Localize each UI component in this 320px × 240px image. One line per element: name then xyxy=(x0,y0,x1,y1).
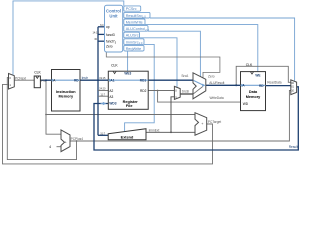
wire Zero: ALU to control unit xyxy=(106,52,220,78)
svg-text:Zero: Zero xyxy=(208,74,215,78)
label box RegWrite xyxy=(124,45,144,51)
flow arrowhead at register file A1 xyxy=(109,79,112,82)
svg-text:Memory: Memory xyxy=(246,95,261,99)
wire Instr vertical branch xyxy=(97,80,100,135)
svg-text:RegWrite: RegWrite xyxy=(126,47,142,51)
svg-text:ReadData: ReadData xyxy=(267,81,282,85)
junction PC to PCTarget xyxy=(45,114,47,116)
data memory box xyxy=(241,72,266,111)
svg-text:19:15: 19:15 xyxy=(99,77,106,80)
svg-text:24:20: 24:20 xyxy=(99,88,106,91)
wire WriteData: RD2 to data memory WD xyxy=(158,91,241,103)
svg-text:Instruction: Instruction xyxy=(56,90,76,94)
wire instr to A2 xyxy=(98,90,108,92)
svg-text:A3: A3 xyxy=(109,95,113,99)
wire Instr: instruction memory RD to register file A1 xyxy=(80,79,108,82)
svg-text:CLK: CLK xyxy=(34,71,41,75)
svg-text:File: File xyxy=(126,104,133,108)
svg-text:4: 4 xyxy=(49,145,51,149)
flow arrowhead at data memory A xyxy=(241,84,244,87)
svg-text:Extend: Extend xyxy=(121,136,134,140)
svg-text:op: op xyxy=(106,25,110,29)
svg-text:PCNext: PCNext xyxy=(15,76,26,80)
wire Result: result mux to register file WD3 xyxy=(94,87,298,150)
svg-text:6:0: 6:0 xyxy=(100,24,104,27)
svg-text:A1: A1 xyxy=(110,78,114,82)
wire op stub xyxy=(98,25,105,28)
svg-text:MemWrite: MemWrite xyxy=(126,21,143,25)
svg-text:31:7: 31:7 xyxy=(100,132,105,135)
wire ALUControl: label box to ALU xyxy=(148,31,200,77)
svg-text:ALUSrc: ALUSrc xyxy=(126,34,139,38)
wire ALUResult to result mux input 00 xyxy=(236,66,291,85)
clock wedge PC xyxy=(36,76,39,78)
svg-text:WD: WD xyxy=(243,102,249,106)
svg-text:Data: Data xyxy=(249,90,258,94)
svg-text:RD: RD xyxy=(74,78,79,82)
wire PCSrc control: label box to PCNext mux select xyxy=(13,1,124,75)
wire PC: PC register to instruction memory xyxy=(40,79,51,82)
flow arrow tail at WD3 xyxy=(101,102,104,104)
instruction memory box xyxy=(52,70,81,112)
svg-text:ImmExt: ImmExt xyxy=(149,128,160,132)
flow line through data memory xyxy=(241,84,266,86)
svg-text:Instr: Instr xyxy=(82,76,89,80)
wire RD2 to SrcB mux input 0 xyxy=(148,90,174,92)
svg-text:RD1: RD1 xyxy=(140,78,147,82)
svg-text:Register: Register xyxy=(123,100,139,104)
wire PCTarget to PCNext mux input 1 xyxy=(3,84,213,163)
junction instr A1 xyxy=(97,79,99,81)
junction PCPlus4 branch xyxy=(76,140,78,142)
wire SrcB: mux to ALU xyxy=(180,93,193,95)
label box PCSrc xyxy=(124,6,141,11)
wire PCNext: mux to PC register xyxy=(14,79,34,81)
wire ImmExt: Extend to PCTarget adder xyxy=(146,131,195,133)
svg-text:WE3: WE3 xyxy=(124,72,131,76)
ALU xyxy=(193,73,206,99)
mux PCNext (PCSrc) xyxy=(9,74,15,90)
svg-text:PC: PC xyxy=(41,79,46,83)
wire ReadData: data memory RD to result mux input 01 xyxy=(266,84,291,87)
svg-text:WD3: WD3 xyxy=(109,102,116,106)
ALU output flow arrowhead xyxy=(202,84,205,87)
svg-text:Memory: Memory xyxy=(59,95,74,99)
svg-text:A2: A2 xyxy=(109,89,113,93)
svg-text:Zero: Zero xyxy=(106,45,113,49)
svg-text:PCSrc: PCSrc xyxy=(126,7,137,11)
wire funct7 stub xyxy=(98,40,105,43)
svg-text:Unit: Unit xyxy=(109,13,118,18)
svg-text:14:12: 14:12 xyxy=(93,31,100,34)
ALU internal highlight arrow xyxy=(193,80,203,85)
wire RegWrite: label box to register file WE3 xyxy=(127,51,129,71)
junction PC tap xyxy=(45,79,47,81)
wire MemWrite control: label box to data memory WE xyxy=(145,25,258,72)
flow line through instruction memory xyxy=(52,79,81,81)
junction ImmExt xyxy=(170,131,172,133)
svg-text:PCTarget: PCTarget xyxy=(208,120,221,124)
junction ALUResult xyxy=(235,84,237,86)
wire RD1 to ALU SrcA xyxy=(148,79,193,82)
flow arrowhead at instruction memory A xyxy=(52,79,55,82)
svg-text:Result: Result xyxy=(289,145,298,149)
flow line through register file xyxy=(108,79,148,81)
wire ImmExt riser to SrcB mux input 1 xyxy=(171,97,174,133)
clock wedge register file xyxy=(113,71,116,73)
wire ALUSrc control: label box to SrcB mux select xyxy=(140,38,178,88)
wire funct3 stub xyxy=(98,33,105,36)
label box ALUControl xyxy=(124,26,148,32)
label box ImmSrc xyxy=(124,39,144,45)
mux Result (ResultSrc) xyxy=(291,80,297,95)
svg-text:CLK: CLK xyxy=(111,64,118,68)
extend unit xyxy=(108,129,146,140)
wire ImmSrc control: label box to Extend xyxy=(125,44,155,131)
wire Instr to control unit op xyxy=(97,27,100,80)
svg-text:RD2: RD2 xyxy=(140,89,147,93)
label box MemWrite xyxy=(124,19,145,25)
svg-text:funct3: funct3 xyxy=(106,33,115,37)
wire ALUResult: ALU to data memory A xyxy=(206,84,241,87)
wire instr to Extend xyxy=(98,134,108,137)
svg-text:11:7: 11:7 xyxy=(100,93,105,96)
wire instr to A3 xyxy=(98,95,108,97)
mux SrcB (ALUSrc) xyxy=(174,86,180,99)
svg-text:ALUResult: ALUResult xyxy=(209,81,224,85)
register PC xyxy=(34,76,40,88)
flow arrowhead at register file WD3 xyxy=(103,102,107,105)
svg-text:WriteData: WriteData xyxy=(210,96,224,100)
wire constant 4 into PCPlus4 xyxy=(57,146,62,148)
svg-text:PCPlus4: PCPlus4 xyxy=(71,137,84,141)
svg-text:RD: RD xyxy=(259,84,264,88)
svg-text:SrcA: SrcA xyxy=(181,74,189,78)
svg-text:WE: WE xyxy=(255,73,260,77)
wire PC tap to PCTarget adder xyxy=(46,114,195,116)
wire PC tap to PCPlus4 adder xyxy=(46,80,61,134)
control unit box xyxy=(105,5,123,52)
wire ResultSrc control: label box to result mux select xyxy=(150,18,295,81)
svg-text:CLK: CLK xyxy=(246,63,253,67)
adder PCPlus4 xyxy=(61,130,70,152)
svg-text:SrcB: SrcB xyxy=(182,90,189,94)
svg-text:Control: Control xyxy=(106,9,121,14)
junction RD2 WriteData xyxy=(157,90,159,92)
wire PCPlus4 to result mux xyxy=(70,90,291,141)
label box ALUSrc xyxy=(124,32,140,38)
adder PCTarget xyxy=(195,113,207,136)
wire PCPlus4 return to PCNext mux input 0 xyxy=(7,78,76,160)
register file box xyxy=(108,71,148,109)
clock wedge data memory xyxy=(250,72,253,74)
label box ResultSrc xyxy=(124,12,150,18)
